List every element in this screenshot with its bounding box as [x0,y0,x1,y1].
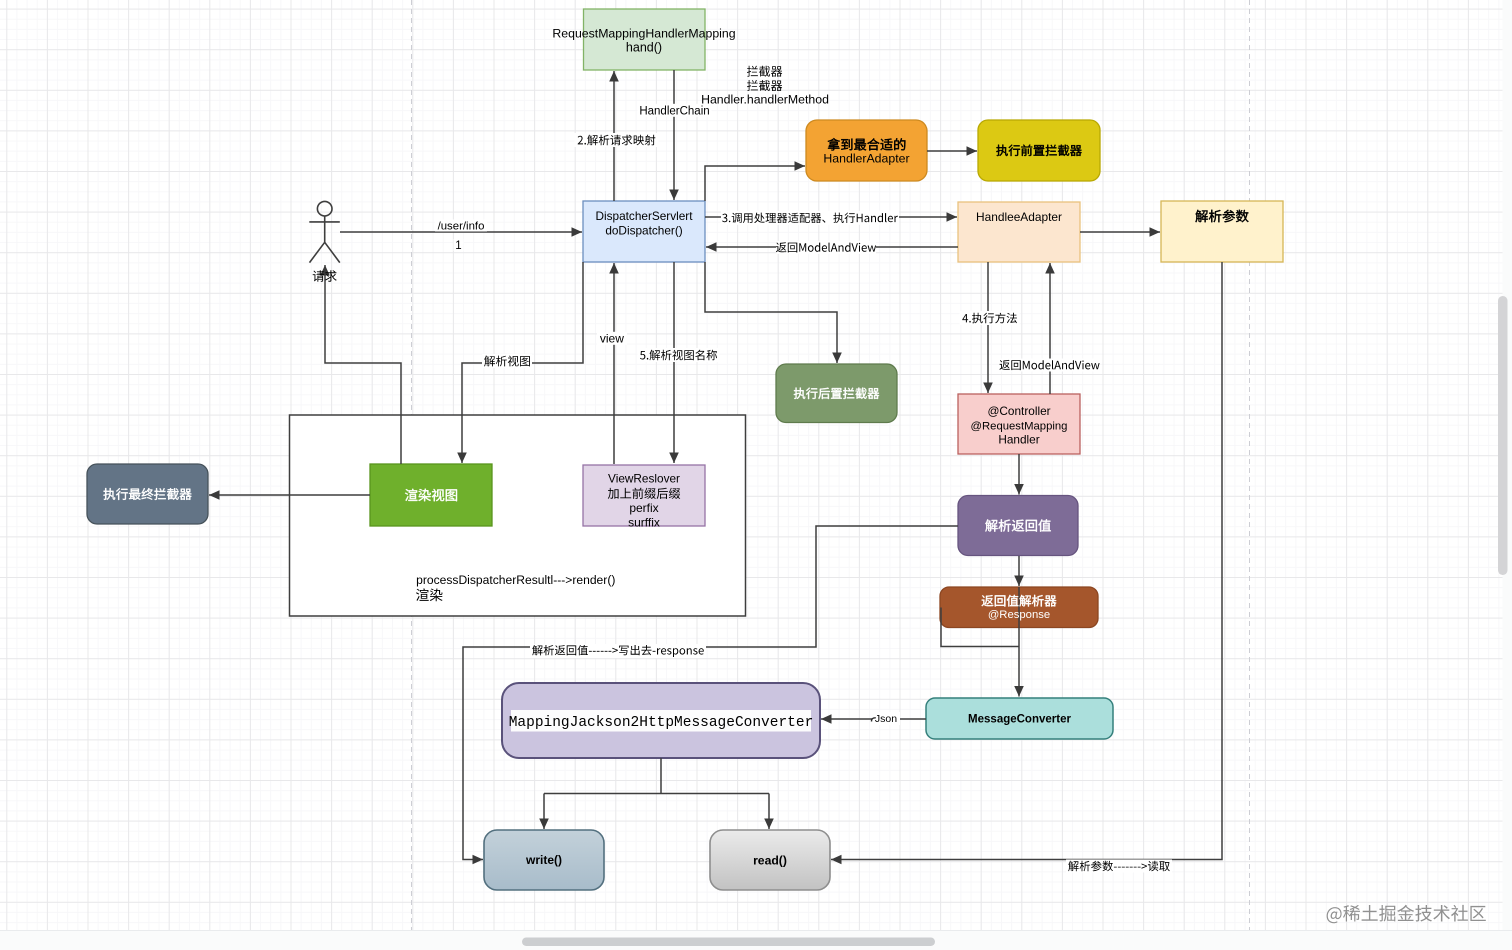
svg-text:ViewReslover: ViewReslover [608,472,680,486]
svg-text:write(): write() [525,853,562,867]
svg-text:HandleeAdapter: HandleeAdapter [976,210,1062,224]
svg-text:1: 1 [455,240,461,252]
svg-text:Json: Json [875,713,897,725]
svg-text:read(): read() [753,853,787,867]
svg-text:Handler.handlerMethod: Handler.handlerMethod [701,93,829,107]
svg-text:HandlerChain: HandlerChain [639,105,709,117]
svg-text:MessageConverter: MessageConverter [968,714,1071,726]
svg-text:processDispatcherResultl--->re: processDispatcherResultl--->render() [416,573,615,587]
svg-text:Handler: Handler [998,433,1039,447]
svg-text:RequestMappingHandlerMapping: RequestMappingHandlerMapping [552,26,735,40]
svg-text:surffix: surffix [628,516,660,530]
svg-text:@Controller: @Controller [987,404,1050,418]
svg-text:view: view [600,332,624,346]
svg-text:@Response: @Response [988,609,1050,621]
svg-text:@RequestMapping: @RequestMapping [971,421,1068,433]
svg-text:doDispatcher(): doDispatcher() [605,223,682,237]
svg-text:/user/info: /user/info [438,221,485,233]
svg-text:MappingJackson2HttpMessageConv: MappingJackson2HttpMessageConverter [509,715,814,731]
svg-text:perfix: perfix [629,501,658,515]
svg-text:hand(): hand() [626,41,662,55]
svg-text:HandlerAdapter: HandlerAdapter [823,152,909,166]
svg-text:DispatcherServlert: DispatcherServlert [595,209,693,223]
